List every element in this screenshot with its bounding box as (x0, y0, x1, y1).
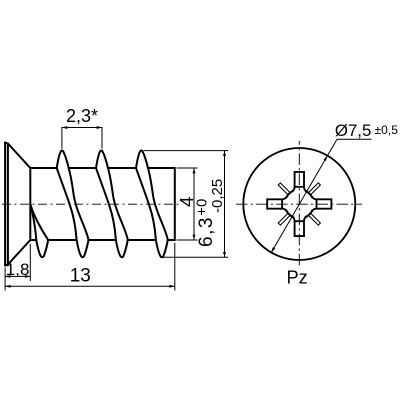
thread root lobe 3 (116, 240, 128, 257)
pozidriv tick marks (45 deg) (309, 183, 321, 195)
dimension 6,3 +0/-0,25 (thread outer diameter) (144, 151, 229, 258)
dimension 1,8 (head height) (5, 244, 30, 291)
diameter dimension arrows (271, 247, 275, 252)
thread root lobe 2 (77, 240, 89, 257)
diameter dimension line (271, 139, 371, 252)
pozidriv recess centre circle (285, 190, 314, 219)
thread crest 3 (136, 150, 148, 168)
thread root lobe 1 (36, 240, 48, 257)
screw body outline (core cylinder, side view) (30, 168, 175, 240)
pozidriv recess wings (cross arms) (292, 172, 307, 192)
svg-text:1,8: 1,8 (6, 260, 30, 279)
thread flank pair 2 (96, 168, 116, 240)
svg-text:Pz: Pz (287, 267, 308, 287)
thread flank pair 3 (136, 168, 156, 240)
svg-text:Ø7,5: Ø7,5 (335, 121, 371, 140)
thread flank pair at head junction (partial wrap) (31, 204, 37, 240)
thread crest 1 (57, 150, 69, 168)
thread flank pair 1 (57, 168, 77, 240)
svg-text:-0,25: -0,25 (209, 179, 226, 213)
svg-text:13: 13 (70, 266, 91, 287)
svg-text:2,3*: 2,3* (66, 106, 98, 126)
vertical centerline (front view) (298, 141, 300, 267)
svg-text:±0,5: ±0,5 (375, 123, 399, 137)
dimension 4 (core diameter) (177, 168, 198, 240)
head outline circle (front view) (243, 148, 355, 260)
screw head (countersunk, side view) (5, 142, 30, 265)
horizontal centerline (front view) (236, 203, 362, 205)
thread root lobe 4 (156, 240, 168, 257)
dimension 2,3* (thread pitch) (62, 127, 102, 149)
svg-text:6,3: 6,3 (196, 216, 217, 247)
thread crest 2 (96, 150, 108, 168)
centerline (screw axis, side view) (2, 203, 181, 205)
dimension 13 (overall length) (5, 243, 175, 291)
